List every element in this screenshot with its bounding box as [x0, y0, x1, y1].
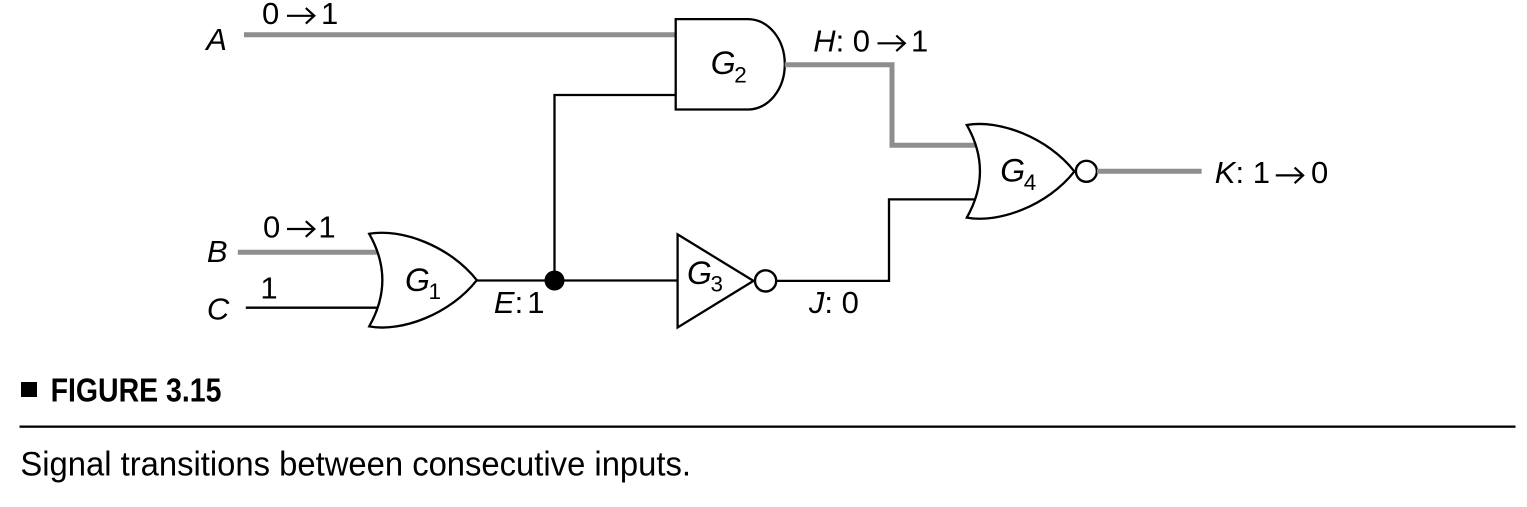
svg-text:J: 0: J: 0 — [808, 285, 859, 320]
svg-text:3: 3 — [711, 272, 724, 297]
and-gate G2 — [676, 19, 785, 109]
bubble G4 — [1076, 161, 1097, 182]
svg-text:B: B — [207, 234, 228, 269]
svg-text:K: 1: K: 1 — [1215, 155, 1270, 190]
svg-text:0: 0 — [1311, 155, 1328, 190]
nor-gate G4 — [967, 124, 1075, 219]
svg-text:1: 1 — [527, 285, 544, 320]
svg-text:4: 4 — [1024, 170, 1037, 195]
figure marker square — [21, 382, 37, 397]
wire K (gray G4 output) — [1097, 169, 1202, 174]
wire E branch up to G2 second input — [555, 95, 678, 281]
svg-text:0: 0 — [262, 0, 279, 31]
svg-text:1: 1 — [318, 209, 335, 244]
svg-text:G: G — [405, 262, 430, 298]
svg-text:0: 0 — [263, 209, 280, 244]
svg-text:2: 2 — [734, 63, 747, 88]
svg-text:FIGURE 3.15: FIGURE 3.15 — [51, 371, 222, 408]
svg-text:C: C — [207, 292, 230, 327]
wire A (gray input to G2) — [244, 32, 677, 37]
svg-text:H: 0: H: 0 — [813, 23, 870, 58]
svg-text:1: 1 — [260, 271, 277, 306]
wire E (G1 output to junction and G3) — [477, 279, 679, 281]
junction dot E — [545, 271, 565, 291]
svg-text:G: G — [1000, 153, 1025, 189]
svg-text:A: A — [204, 22, 227, 57]
svg-text:E:: E: — [494, 285, 523, 320]
or-gate G1 — [369, 233, 477, 328]
wire B (gray input to G1) — [238, 250, 380, 255]
svg-text:G: G — [711, 45, 736, 81]
svg-text:Signal transitions between con: Signal transitions between consecutive i… — [20, 446, 691, 484]
horizontal rule — [20, 426, 1516, 428]
svg-text:G: G — [687, 255, 712, 291]
svg-text:1: 1 — [429, 279, 442, 304]
not-gate G3 — [678, 234, 754, 327]
wire C (black input to G1) — [246, 307, 379, 309]
wire H (gray G2 output to G4 upper input) — [785, 65, 975, 145]
bubble G3 — [755, 270, 776, 291]
svg-text:1: 1 — [321, 0, 338, 31]
svg-text:1: 1 — [911, 23, 928, 58]
wire J (G3 output to G4 lower input) — [776, 199, 975, 281]
